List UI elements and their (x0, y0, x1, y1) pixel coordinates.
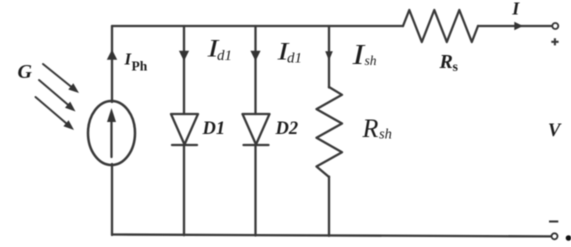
svg-text:d1: d1 (217, 48, 232, 64)
wire diode branch 1 upper (183, 26, 185, 114)
current source U1 arrowhead (107, 108, 116, 122)
current source U1 arrow shaft (110, 119, 112, 157)
stray dot (text period artifact) (566, 235, 571, 241)
wire diode branch 1 lower (183, 145, 185, 235)
label + terminal sign (551, 38, 558, 45)
resistor Rsh zigzag (317, 87, 343, 177)
wire shunt branch upper (328, 26, 330, 88)
current Id1 arrowhead down (branch 2) (250, 51, 260, 61)
wire top bus left segment (112, 25, 403, 27)
wire left branch lower (111, 164, 113, 235)
svg-text:R: R (362, 114, 379, 143)
terminal node - (bottom right) (552, 233, 558, 239)
irradiance arrow G2 head (65, 102, 76, 112)
diode D2 symbol (243, 114, 270, 145)
svg-text:sh: sh (379, 127, 392, 143)
current I arrowhead right (514, 22, 523, 30)
wire bottom bus (112, 235, 551, 237)
current source U1 circle (88, 101, 135, 165)
irradiance arrow G1 shaft (43, 64, 72, 87)
wire top bus right segment (478, 25, 552, 27)
current IPh arrowhead up (107, 50, 117, 60)
svg-text:s: s (453, 60, 459, 75)
svg-text:D1: D1 (202, 119, 226, 139)
svg-text:d1: d1 (287, 50, 302, 66)
irradiance arrow G2 shaft (39, 80, 68, 105)
svg-text:I: I (511, 0, 520, 18)
current Ish arrowhead down (325, 51, 333, 60)
svg-text:sh: sh (365, 53, 377, 68)
irradiance arrow G3 head (63, 120, 74, 130)
svg-text:Ph: Ph (132, 59, 148, 74)
wire left branch upper (111, 26, 113, 102)
wire diode branch 2 lower (254, 145, 256, 236)
diode D1 symbol (171, 114, 198, 145)
wire diode branch 2 upper (254, 26, 256, 114)
resistor Rs zigzag (403, 10, 478, 42)
terminal node + (top right) (552, 23, 558, 29)
svg-text:G: G (18, 61, 33, 83)
current Id1 arrowhead down (branch 1) (179, 51, 189, 61)
svg-text:R: R (439, 51, 453, 73)
irradiance arrow G3 shaft (36, 97, 67, 124)
label - terminal sign (549, 220, 558, 222)
wire shunt branch lower (328, 177, 330, 236)
irradiance arrow G1 head (68, 83, 79, 93)
svg-text:V: V (548, 121, 562, 141)
svg-text:D2: D2 (275, 119, 299, 139)
